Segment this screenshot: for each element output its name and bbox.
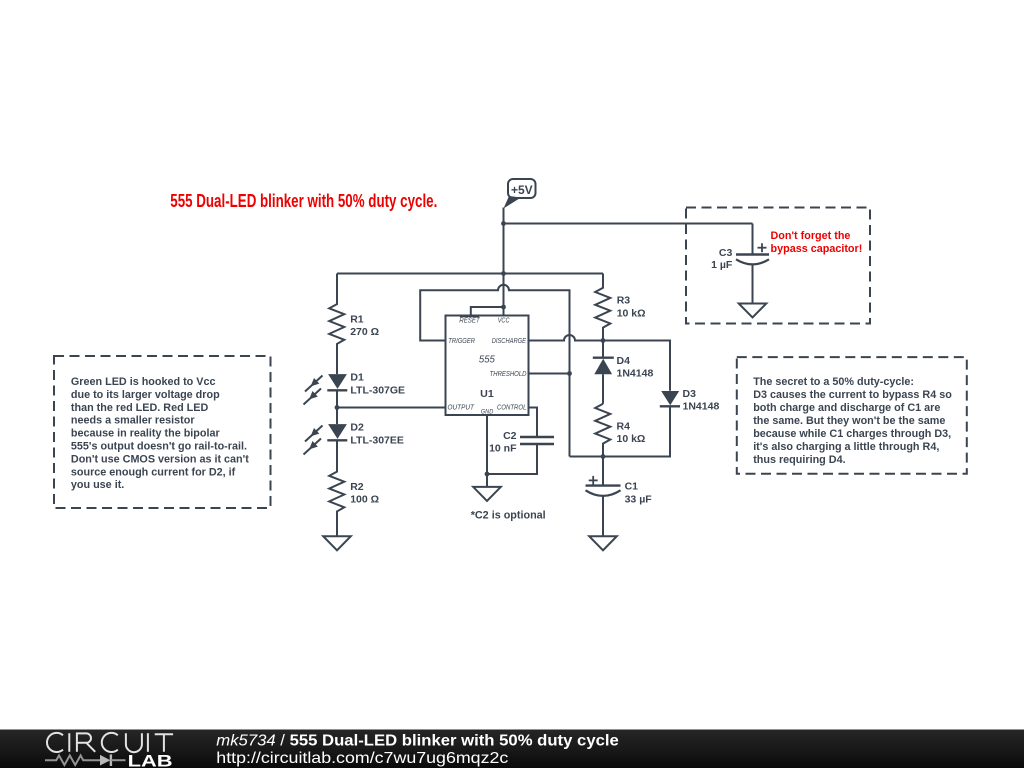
- resistor R4: [595, 404, 610, 457]
- svg-text:VCC: VCC: [498, 318, 511, 325]
- annotation dashed box left: [54, 356, 271, 508]
- svg-text:555 Dual-LED blinker with 50%: 555 Dual-LED blinker with 50% duty cycle…: [170, 191, 437, 211]
- svg-text:Don't use CMOS version as it c: Don't use CMOS version as it can't: [71, 453, 249, 465]
- svg-text:R3: R3: [617, 294, 631, 306]
- svg-text:10 kΩ: 10 kΩ: [617, 433, 646, 445]
- node junction bottom rail: [601, 454, 606, 459]
- logo diode: [100, 755, 110, 766]
- wire GND pin: [486, 415, 488, 487]
- svg-text:mk5734 / 555 Dual-LED blinker: mk5734 / 555 Dual-LED blinker with 50% d…: [216, 733, 619, 750]
- svg-text:10 kΩ: 10 kΩ: [617, 307, 646, 319]
- svg-text:the same. But they won't be th: the same. But they won't be the same: [753, 415, 945, 427]
- svg-text:it's also charging a little th: it's also charging a little through R4,: [753, 441, 939, 453]
- diode D3: [660, 391, 680, 406]
- svg-text:33 µF: 33 µF: [625, 494, 653, 506]
- note green LED text: [71, 376, 249, 491]
- svg-text:555: 555: [479, 355, 495, 366]
- svg-text:The secret to a 50% duty-cycle: The secret to a 50% duty-cycle:: [753, 376, 914, 388]
- wire OUTPUT: [337, 407, 446, 409]
- logo CIRCUIT letters: [47, 733, 173, 752]
- svg-text:R2: R2: [350, 481, 364, 493]
- wire DISCHARGE net with hop: [529, 335, 671, 391]
- svg-text:C3: C3: [719, 247, 733, 259]
- resistor R2: [329, 440, 344, 536]
- LED D1: [304, 374, 348, 404]
- svg-text:needs a smaller resistor: needs a smaller resistor: [71, 415, 195, 427]
- svg-text:U1: U1: [480, 388, 494, 400]
- wire second rail R1 to R3: [337, 273, 603, 275]
- note duty cycle text: [753, 376, 952, 466]
- wire RESET-VCC tie: [471, 307, 504, 316]
- svg-text:D3 causes the current to bypas: D3 causes the current to bypass R4 so: [753, 389, 952, 401]
- ground under 555: [473, 487, 501, 501]
- node junction GND/C2: [485, 472, 490, 477]
- svg-text:270 Ω: 270 Ω: [350, 326, 379, 338]
- node junction top rail: [501, 221, 506, 226]
- wire THRESHOLD stub: [529, 373, 570, 375]
- svg-text:LTL-307GE: LTL-307GE: [350, 384, 405, 396]
- svg-text:CONTROL: CONTROL: [497, 405, 527, 412]
- logo resistor squiggle: [45, 755, 100, 765]
- svg-text:LTL-307EE: LTL-307EE: [350, 434, 403, 446]
- svg-text:http://circuitlab.com/c7wu7ug6: http://circuitlab.com/c7wu7ug6mqz2c: [216, 750, 508, 767]
- svg-text:RESET: RESET: [459, 318, 480, 325]
- svg-text:than the red LED. Red LED: than the red LED. Red LED: [71, 402, 209, 414]
- svg-text:DISCHARGE: DISCHARGE: [492, 338, 527, 345]
- svg-text:C1: C1: [625, 481, 639, 493]
- annotation dashed box C3: [686, 208, 870, 324]
- svg-text:OUTPUT: OUTPUT: [448, 405, 475, 412]
- svg-text:Don't forget the: Don't forget the: [771, 230, 851, 242]
- svg-text:555's output doesn't go rail-t: 555's output doesn't go rail-to-rail.: [71, 441, 247, 453]
- ground under C1: [589, 536, 617, 550]
- wire bottom rail threshold/R4/C1/D3: [570, 406, 671, 456]
- svg-text:TRIGGER: TRIGGER: [448, 338, 475, 345]
- svg-text:both charge and discharge of C: both charge and discharge of C1 are: [753, 402, 940, 414]
- svg-text:10 nF: 10 nF: [489, 443, 517, 455]
- svg-text:R4: R4: [617, 420, 631, 432]
- svg-text:D2: D2: [350, 421, 364, 433]
- node junction second rail: [501, 271, 506, 276]
- svg-text:LAB: LAB: [128, 752, 173, 768]
- power flag +5V: [504, 179, 536, 209]
- wire D1 to node: [336, 390, 338, 424]
- resistor R1: [329, 274, 344, 375]
- ground left branch: [323, 536, 351, 550]
- svg-text:1 µF: 1 µF: [711, 259, 733, 271]
- svg-text:GND: GND: [481, 408, 494, 415]
- wire top rail to C3: [504, 223, 753, 225]
- svg-text:C2: C2: [503, 430, 517, 442]
- svg-text:1N4148: 1N4148: [617, 368, 654, 380]
- svg-text:*C2 is optional: *C2 is optional: [471, 510, 546, 522]
- svg-text:D3: D3: [683, 388, 697, 400]
- ground under C3: [739, 304, 767, 318]
- svg-text:THRESHOLD: THRESHOLD: [490, 371, 527, 378]
- svg-text:thus requiring D4.: thus requiring D4.: [753, 454, 845, 466]
- capacitor C3 electrolytic: [736, 224, 769, 304]
- annotation dashed box right: [737, 357, 967, 474]
- resistor R3: [595, 274, 610, 358]
- svg-text:Green LED is hooked to Vcc: Green LED is hooked to Vcc: [71, 376, 216, 388]
- svg-text:source enough current for D2,: source enough current for D2, if: [71, 466, 236, 478]
- capacitor C2: [487, 408, 554, 475]
- node junction VCC: [501, 305, 506, 310]
- op 555 box U1: [446, 316, 529, 416]
- wire VCC pin: [503, 274, 505, 316]
- node junction THRESHOLD: [567, 371, 572, 376]
- node junction discharge/R3/D4: [601, 338, 606, 343]
- diode D4: [593, 358, 614, 404]
- svg-text:D1: D1: [350, 371, 364, 383]
- pin RESET overline: [460, 316, 479, 318]
- svg-text:you use it.: you use it.: [71, 479, 124, 491]
- LED D2: [304, 424, 348, 454]
- svg-text:1N4148: 1N4148: [683, 400, 720, 412]
- wire TRIGGER net with hop over VCC: [420, 285, 569, 457]
- svg-text:D4: D4: [617, 355, 631, 367]
- svg-text:bypass capacitor!: bypass capacitor!: [771, 243, 863, 255]
- node junction OUTPUT: [335, 405, 340, 410]
- svg-text:R1: R1: [350, 314, 364, 326]
- svg-text:because while C1 charges throu: because while C1 charges through D3,: [753, 428, 951, 440]
- capacitor C1 electrolytic: [586, 457, 621, 537]
- svg-text:because in reality the bipolar: because in reality the bipolar: [71, 428, 221, 440]
- svg-text:due to its larger voltage drop: due to its larger voltage drop: [71, 389, 220, 401]
- svg-text:+5V: +5V: [511, 183, 533, 197]
- wire +5V stem: [503, 208, 505, 274]
- svg-text:100 Ω: 100 Ω: [350, 494, 379, 506]
